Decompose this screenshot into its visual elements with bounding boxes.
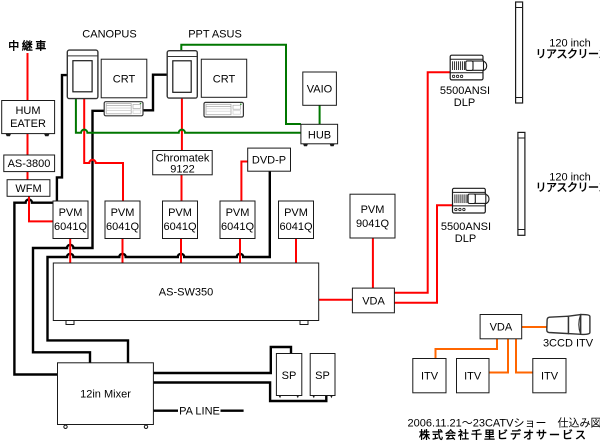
wire red: AS-3800 to WFM [27,172,29,180]
svg-text:2006.11.21～23CATVショー 仕込み図: 2006.11.21～23CATVショー 仕込み図 [408,417,600,430]
DLP projector 1 [450,55,487,80]
box VDA 2 [480,315,522,339]
box ITV 2 [457,359,490,393]
svg-text:中継車: 中継車 [8,39,49,53]
wire red: HUM EATER to AS-3800 [27,134,29,155]
svg-text:PVM: PVM [168,207,192,219]
box 12in Mixer [58,363,154,429]
DLP projector 2 [453,188,490,213]
svg-text:CANOPUS: CANOPUS [82,29,136,41]
svg-text:9122: 9122 [170,164,194,176]
svg-text:6041Q: 6041Q [221,221,254,233]
box SP 2 [310,354,335,399]
box HUM EATER [2,101,55,137]
wire red: PVM2 to AS-SW350 [122,239,124,264]
box VDA 1 [352,288,394,313]
DV deck 1 [104,102,143,116]
svg-text:3CCD ITV: 3CCD ITV [543,338,594,350]
svg-text:ITV: ITV [541,371,559,383]
box PVM 9041Q [350,194,395,238]
wire red: AS-SW350 right to VDA1 left [319,299,353,301]
wire red: PVM3 to AS-SW350 [180,239,182,264]
wire green: CANOPUS monitor to HUB left [76,99,301,133]
svg-text:CRT: CRT [213,74,236,86]
svg-text:DVD-P: DVD-P [252,155,286,167]
box SP 1 [276,354,301,399]
box WFM [7,180,50,197]
wire red: VDA1 to DLP projector 2 [394,205,452,303]
svg-text:PVM: PVM [284,207,308,219]
box PVM 6041Q no1 [53,201,88,239]
box AS-SW350 [53,263,318,325]
wire red: WFM to PVM1 left [29,196,53,221]
svg-text:VAIO: VAIO [307,84,333,96]
svg-text:SP: SP [315,370,330,382]
wire orange: VDA2 to ITV3 [516,339,533,373]
svg-text:6041Q: 6041Q [279,221,312,233]
box PVM 6041Q no3 [163,201,198,239]
svg-text:CRT: CRT [113,74,136,86]
wire red: PVM4 to AS-SW350 [239,239,241,264]
wire black: 12in Mixer right to SP2 bottom [153,383,326,402]
svg-text:ITV: ITV [464,371,482,383]
CANOPUS camera monitor [67,50,98,99]
wire black: DV deck 1 right to PPT monitor left [143,75,167,111]
svg-text:PA LINE: PA LINE [179,406,220,418]
box DVD-P [248,148,291,171]
svg-text:12in Mixer: 12in Mixer [80,389,131,401]
wire black: CANOPUS monitor left to 12in Mixer left [14,75,67,374]
DV deck 2 [204,102,243,117]
3CCD ITV camera [547,315,590,335]
box VAIO [303,72,337,105]
svg-text:VDA: VDA [362,296,385,308]
svg-text:6041Q: 6041Q [163,221,196,233]
wire orange: VDA2 to ITV1 [436,339,498,359]
svg-text:PPT ASUS: PPT ASUS [188,29,242,41]
box PVM 6041Q no5 [279,201,314,239]
wire orange: VDA2 to ITV2 [489,339,508,373]
svg-text:6041Q: 6041Q [106,221,139,233]
svg-text:6041Q: 6041Q [54,221,87,233]
wire black: PA LINE stub [153,410,243,412]
svg-text:ITV: ITV [421,371,439,383]
box PVM 6041Q no4 [220,201,255,239]
wire red: CANOPUS monitor to PVM2 top [84,99,123,201]
box CRT 2 [201,59,246,97]
svg-text:リアスクリーン: リアスクリーン [536,48,600,61]
svg-text:HUB: HUB [308,130,331,142]
box CRT 1 [101,59,147,98]
PPT ASUS camera monitor [167,51,197,98]
wire orange: VDA2 to 3CCD ITV camera [522,326,547,328]
wire red: PVM 9041Q to VDA1 top [372,238,374,288]
svg-text:VDA: VDA [490,322,513,334]
box Chromatek 9122 [153,151,213,176]
svg-text:AS-3800: AS-3800 [8,158,51,170]
svg-text:AS-SW350: AS-SW350 [159,287,213,299]
svg-text:PVM: PVM [59,207,83,219]
wire red: VDA1 to DLP projector 1 [394,72,450,292]
wire green: VAIO to HUB top [319,105,321,124]
svg-text:株式会社千里ビデオサービス: 株式会社千里ビデオサービス [419,428,588,442]
svg-text:5500ANSI: 5500ANSI [441,221,491,233]
wire red: PPT monitor to Chromatek top [181,98,183,150]
rear screen 1 [516,2,523,103]
wire red: DVD-P to PVM4 top [241,162,247,202]
wire red: Chromatek to PVM3 top [181,175,183,201]
box ITV 1 [413,359,446,393]
wire red: PVM5 to AS-SW350 [295,239,297,264]
wire green: PPT monitor top to HUB left [181,45,301,124]
wire black: 12in Mixer right to SP1 top [153,347,291,373]
wire black: DV deck 1 left to 12in Mixer top [33,111,104,363]
svg-text:SP: SP [282,370,297,382]
svg-text:PVM: PVM [226,207,250,219]
svg-text:DLP: DLP [454,97,475,109]
rear screen 2 [518,132,525,235]
svg-text:PVM: PVM [111,207,135,219]
box HUB [301,124,338,146]
box AS-3800 [4,155,55,172]
wire red: PVM1 to AS-SW350 [69,239,71,264]
svg-text:リアスクリーン: リアスクリーン [536,181,600,194]
svg-text:5500ANSI: 5500ANSI [440,85,490,97]
svg-text:HUM: HUM [15,105,40,117]
svg-text:9041Q: 9041Q [356,218,389,230]
svg-text:PVM: PVM [361,204,385,216]
box ITV 3 [533,359,566,393]
svg-text:EATER: EATER [10,118,46,130]
box PVM 6041Q no2 [105,201,140,239]
svg-text:DLP: DLP [455,233,476,245]
svg-text:WFM: WFM [15,183,41,195]
wire black: DVD-P bottom junction bus to 12in Mixer top [48,171,270,363]
wire red: relay truck to HUM EATER [27,53,29,101]
